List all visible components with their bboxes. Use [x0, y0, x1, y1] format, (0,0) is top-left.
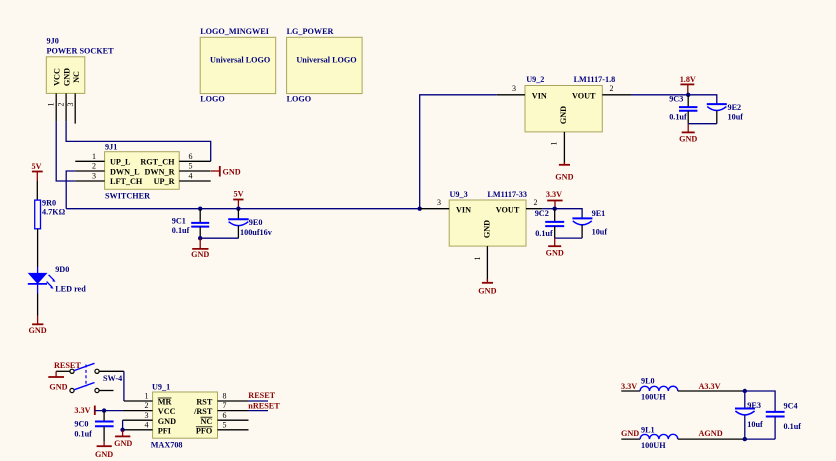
resistor 9R0 value 4.7KΩ: [42, 208, 66, 217]
svg-text:9C1: 9C1: [172, 217, 186, 226]
svg-text:5: 5: [189, 162, 193, 171]
svg-text:5V: 5V: [32, 162, 42, 171]
supervisor U9_1 pin 7 line: [218, 410, 249, 412]
ground symbol below U9_2: [555, 162, 573, 181]
logo LG_POWER label: [287, 27, 334, 36]
capacitor 9E3 value 10uf: [747, 420, 763, 429]
supervisor U9_1 pin 7 number: [223, 401, 227, 410]
logo LOGO_MINGWEI label: [200, 27, 269, 36]
svg-text:9E3: 9E3: [747, 401, 761, 410]
capacitor 9C2 designator: [535, 209, 549, 218]
switch SW-4 contacts and levers: [70, 363, 99, 392]
wire socket pin2 down, right, to RGT_CH pin 6: [66, 121, 211, 161]
svg-text:3.3V: 3.3V: [546, 190, 562, 199]
svg-text:LG_POWER: LG_POWER: [287, 27, 334, 36]
svg-text:nRESET: nRESET: [248, 402, 280, 411]
supervisor U9_1 pin name NC (overline): [200, 417, 212, 426]
connector 9J0 pin 3 number: [66, 103, 75, 107]
wire U9_1 GND/PFI join: [122, 420, 124, 432]
supervisor U9_1 pin 6 number: [223, 411, 227, 420]
regulator U9_2 pin 2 line: [602, 94, 631, 96]
connector 9J0 pin 2 number: [57, 103, 66, 107]
ground symbol below 9C0: [95, 442, 113, 459]
svg-text:3.3V: 3.3V: [621, 382, 637, 391]
svg-text:LOGO: LOGO: [287, 95, 312, 104]
svg-text:GND: GND: [483, 220, 492, 238]
svg-text:RESET: RESET: [54, 361, 81, 370]
svg-text:RESET: RESET: [248, 391, 275, 400]
svg-text:NC: NC: [72, 71, 81, 83]
svg-text:GND: GND: [49, 382, 67, 391]
svg-text:3.3V: 3.3V: [74, 406, 90, 415]
svg-text:100UH: 100UH: [641, 441, 666, 450]
capacitor 9E2 value 10uf: [728, 113, 744, 122]
capacitor 9E2 electrolytic: [707, 104, 727, 124]
svg-text:U9_3: U9_3: [450, 190, 468, 199]
svg-text:3: 3: [92, 172, 96, 181]
power 5V label (left): [32, 162, 42, 171]
regulator U9_3 pin 2 number: [534, 198, 538, 207]
wire GND to 9L1: [621, 438, 640, 440]
svg-text:MAX708: MAX708: [151, 440, 183, 449]
ground symbol at 9J1 pin 5: [211, 166, 241, 177]
svg-text:NC: NC: [200, 417, 212, 426]
svg-text:GND: GND: [679, 134, 697, 143]
regulator U9_2 pin 1 GND line: [563, 132, 565, 164]
svg-text:9C0: 9C0: [74, 420, 88, 429]
regulator U9_2 body: [525, 86, 602, 132]
svg-text:2: 2: [92, 162, 96, 171]
power 3.3V label (U9_1): [74, 406, 90, 415]
supervisor U9_1 designator: [152, 383, 170, 392]
svg-text:9L1: 9L1: [641, 425, 655, 434]
supervisor U9_1 pin 6 line: [218, 419, 249, 421]
svg-text:PFO: PFO: [196, 426, 212, 435]
inductor 9L1 value 100UH: [641, 441, 666, 450]
capacitor 9C2: [545, 209, 564, 238]
ground symbol below 9C1: [191, 238, 209, 259]
svg-text:/RST: /RST: [193, 407, 213, 416]
net label GND (filter input): [621, 429, 639, 438]
regulator U9_3 comment LM1117-33: [487, 190, 527, 199]
switch 9J1 pin name DWN_L: [110, 167, 140, 176]
supervisor U9_1 pin 3 line: [123, 419, 153, 421]
connector 9J0 pin 2 line: [65, 93, 67, 121]
svg-text:LED red: LED red: [55, 285, 86, 294]
svg-text:DWN_R: DWN_R: [144, 167, 174, 176]
inductor 9L0 designator: [641, 377, 655, 386]
svg-text:SWITCHER: SWITCHER: [105, 191, 150, 200]
switch 9J1 pin 1 line: [75, 160, 104, 162]
switch 9J1 comment SWITCHER: [105, 191, 150, 200]
ground symbol below 9C3: [679, 124, 697, 144]
svg-text:PFI: PFI: [158, 426, 171, 435]
wire 3.3V node to 9E1 top: [555, 209, 582, 219]
svg-text:GND: GND: [28, 326, 46, 335]
net label AGND: [699, 429, 723, 438]
supervisor U9_1 pin name PFO (overline): [196, 426, 212, 435]
ground symbol below LED: [28, 316, 46, 335]
wire RESET net stub: [248, 400, 268, 402]
svg-text:1: 1: [92, 152, 96, 161]
regulator U9_3 pin name VOUT: [496, 205, 520, 214]
logo LOGO_MINGWEI body: [200, 37, 276, 93]
svg-text:GND: GND: [191, 250, 209, 259]
regulator U9_3 designator: [450, 190, 468, 199]
switch 9J1 pin name UP_R: [154, 177, 175, 186]
connector 9J0 pin 1 number: [47, 103, 56, 107]
svg-text:10uf: 10uf: [592, 228, 608, 237]
ground symbol below 9C2: [546, 238, 564, 258]
capacitor 9E3 electrolytic: [735, 391, 755, 439]
svg-text:9C4: 9C4: [784, 401, 798, 410]
svg-text:LOGO_MINGWEI: LOGO_MINGWEI: [200, 27, 269, 36]
svg-text:9E1: 9E1: [592, 209, 606, 218]
supervisor U9_1 pin name /RST: [193, 407, 213, 416]
regulator U9_3 pin 3 line: [420, 208, 450, 210]
svg-text:9J1: 9J1: [105, 143, 117, 152]
switch 9J1 pin 1 number: [92, 152, 96, 161]
svg-text:1: 1: [550, 142, 559, 146]
wire 5V to resistor: [36, 181, 38, 200]
supervisor U9_1 pin 2 line: [123, 410, 153, 412]
svg-text:8: 8: [223, 392, 227, 401]
junction at 1.8V node: [686, 93, 690, 97]
capacitor 9C4 value 0.1uf: [784, 422, 802, 431]
svg-text:100uf16v: 100uf16v: [240, 228, 273, 237]
svg-text:GND: GND: [158, 417, 176, 426]
capacitor 9E2 designator: [728, 103, 742, 112]
ground symbol below U9_1 pins: [114, 430, 132, 448]
inductor 9L1: [640, 434, 678, 439]
svg-text:9C2: 9C2: [535, 209, 549, 218]
supervisor U9_1 pin 2 number: [145, 401, 149, 410]
net label 3.3V (filter input): [621, 382, 637, 391]
svg-text:4.7KΩ: 4.7KΩ: [42, 208, 66, 217]
junction at PFI pin: [120, 428, 124, 432]
capacitor 9C2 value 0.1uf: [535, 229, 553, 238]
capacitor 9C3 designator: [669, 95, 683, 104]
svg-text:0.1uf: 0.1uf: [669, 113, 687, 122]
connector 9J0 pin name VCC: [53, 68, 62, 86]
switch 9J1 pin 3 number: [92, 172, 96, 181]
switch 9J1 pin 3 line: [75, 180, 104, 182]
svg-text:DWN_L: DWN_L: [110, 167, 140, 176]
capacitor 9E1 value 10uf: [592, 228, 608, 237]
supervisor U9_1 comment MAX708: [151, 440, 183, 449]
capacitor 9E0 designator: [249, 218, 263, 227]
svg-text:VOUT: VOUT: [572, 91, 596, 100]
capacitor 9C0 designator: [74, 420, 88, 429]
svg-text:UP_R: UP_R: [154, 177, 175, 186]
inductor 9L0 value 100UH: [641, 393, 666, 402]
svg-text:9E0: 9E0: [249, 218, 263, 227]
svg-text:9D0: 9D0: [55, 265, 69, 274]
svg-text:6: 6: [189, 152, 193, 161]
regulator U9_2 pin name VOUT: [572, 91, 596, 100]
svg-text:9L0: 9L0: [641, 377, 655, 386]
svg-text:RGT_CH: RGT_CH: [140, 158, 175, 167]
wire LED to ground: [37, 294, 39, 316]
LED 9D0 comment LED red: [55, 285, 86, 294]
svg-text:GND: GND: [559, 106, 568, 124]
net label RESET (U9_1 pin 8): [248, 391, 275, 400]
net label A3.3V: [699, 382, 721, 391]
switch 9J1 pin 4 number: [189, 172, 193, 181]
supervisor U9_1 pin name VCC: [158, 407, 176, 416]
capacitor 9C3 value 0.1uf: [669, 113, 687, 122]
svg-text:LM1117-1.8: LM1117-1.8: [574, 75, 616, 84]
switch 9J1 pin 4 line: [179, 180, 211, 182]
capacitor 9C0 value 0.1uf: [74, 429, 92, 438]
supervisor U9_1 pin name RST: [196, 398, 212, 407]
svg-text:1: 1: [47, 103, 56, 107]
switch 9J1 pin 5 line: [179, 170, 211, 172]
svg-text:0.1uf: 0.1uf: [172, 226, 190, 235]
connector 9J0 designator label: [47, 37, 59, 46]
svg-text:UP_L: UP_L: [110, 158, 131, 167]
resistor 9R0 body: [35, 200, 41, 229]
connector 9J0 body: [46, 57, 85, 94]
capacitor 9C1 designator: [172, 217, 186, 226]
junction at AGND and 9E3 bottom: [743, 437, 747, 441]
switch 9J1 pin name UP_L: [110, 158, 131, 167]
capacitor 9C4 designator: [784, 401, 798, 410]
supervisor U9_1 pin 5 line: [218, 429, 249, 431]
switch 9J1 pin 5 number: [189, 162, 193, 171]
supervisor U9_1 pin name MR (overline): [158, 398, 172, 407]
supervisor U9_1 pin 8 line: [218, 400, 249, 402]
svg-text:1: 1: [473, 257, 482, 261]
capacitor 9C3: [679, 95, 697, 124]
logo LOGO_MINGWEI text Universal LOGO: [210, 56, 270, 65]
svg-text:VCC: VCC: [158, 407, 176, 416]
regulator U9_3 pin 2 line: [526, 208, 542, 210]
regulator U9_3 pin 1 GND line: [486, 246, 488, 281]
ground symbol at switch: [48, 371, 67, 391]
svg-text:0.1uf: 0.1uf: [784, 422, 802, 431]
capacitor 9C1: [191, 209, 209, 239]
wire switch left contact to ground: [56, 370, 70, 372]
svg-text:3: 3: [145, 411, 149, 420]
junction at rail and U9_3 branch: [418, 207, 422, 211]
svg-text:0.1uf: 0.1uf: [74, 429, 92, 438]
svg-text:7: 7: [223, 401, 227, 410]
svg-text:1.8V: 1.8V: [680, 75, 696, 84]
wire 9C3 bottom to 9E2 bottom: [688, 123, 717, 125]
svg-text:MR: MR: [158, 398, 172, 407]
svg-text:VIN: VIN: [456, 205, 471, 214]
switch SW-4 designator: [103, 374, 122, 383]
svg-text:2: 2: [57, 103, 66, 107]
svg-text:GND: GND: [555, 172, 573, 181]
LED 9D0 symbol: [28, 267, 56, 294]
junction at rail and 9C1: [198, 207, 202, 211]
svg-text:10uf: 10uf: [747, 420, 763, 429]
junction at rail and 9E0: [236, 207, 240, 211]
wire 9C2 bottom to 9E1 bottom: [555, 237, 582, 239]
supervisor U9_1 pin 4 number: [145, 420, 149, 429]
power 3.3V label (U9_3 out): [546, 190, 562, 199]
regulator U9_3 body: [449, 200, 526, 246]
capacitor 9E1 designator: [592, 209, 606, 218]
regulator U9_2 pin 3 line: [497, 94, 525, 96]
svg-text:SW-4: SW-4: [103, 374, 122, 383]
junction at 9C1 bottom: [198, 236, 202, 240]
net label RESET (switch): [54, 361, 81, 370]
switch 9J1 designator label: [105, 143, 117, 152]
svg-text:Universal LOGO: Universal LOGO: [296, 56, 356, 65]
svg-text:GND: GND: [621, 429, 639, 438]
svg-text:9J0: 9J0: [47, 37, 59, 46]
inductor 9L0: [640, 386, 678, 391]
capacitor 9C0: [95, 411, 114, 442]
wire DWN_L to 5V rail: [66, 171, 75, 209]
svg-text:2: 2: [610, 84, 614, 93]
svg-text:4: 4: [145, 420, 149, 429]
svg-text:RST: RST: [196, 398, 212, 407]
supervisor U9_1 pin 5 number: [223, 420, 227, 429]
switch 9J1 pin name RGT_CH: [140, 158, 175, 167]
svg-text:GND: GND: [114, 439, 132, 448]
svg-text:GND: GND: [546, 249, 564, 258]
capacitor 9E3 designator: [747, 401, 761, 410]
wire stub at lower right contact: [99, 390, 113, 392]
wire 3.3V to 9L0: [621, 390, 640, 392]
wire VCC: socket pin1 down to LFT_CH: [56, 121, 75, 181]
svg-text:LM1117-33: LM1117-33: [487, 190, 527, 199]
regulator U9_2 pin 1 number: [550, 142, 559, 146]
logo LG_POWER footer LOGO: [287, 95, 312, 104]
regulator U9_2 designator: [526, 75, 544, 84]
supervisor U9_1 pin 4 line: [123, 429, 153, 431]
svg-text:5: 5: [223, 420, 227, 429]
svg-text:U9_2: U9_2: [526, 75, 544, 84]
svg-text:2: 2: [534, 198, 538, 207]
svg-text:100UH: 100UH: [641, 393, 666, 402]
switch 9J1 pin 6 number: [189, 152, 193, 161]
regulator U9_2 pin 2 number: [610, 84, 614, 93]
connector 9J0 pin name GND: [63, 68, 72, 86]
junction at 9C0 top: [102, 408, 106, 412]
connector 9J0 comment POWER SOCKET: [47, 47, 115, 56]
svg-text:9C3: 9C3: [669, 95, 683, 104]
junction at A3.3V and 9E3: [743, 389, 747, 393]
power 3.3V symbol bar: [547, 201, 562, 209]
svg-text:3: 3: [66, 103, 75, 107]
svg-text:3: 3: [512, 84, 516, 93]
logo LG_POWER text Universal LOGO: [296, 56, 356, 65]
capacitor 9E0 value 100uf16v: [240, 228, 273, 237]
svg-text:GND: GND: [478, 286, 496, 295]
regulator U9_3 pin 1 number: [473, 257, 482, 261]
wire rail up to U9_2 VIN: [420, 95, 497, 209]
supervisor U9_1 pin name PFI: [158, 426, 171, 435]
switch 9J1 pin name DWN_R: [144, 167, 174, 176]
switch 9J1 pin 2 number: [92, 162, 96, 171]
wire AGND node to 9C4 bottom: [745, 438, 775, 440]
wire 9L0 to A3.3V node: [678, 390, 745, 392]
logo LOGO_MINGWEI footer LOGO: [200, 95, 225, 104]
svg-text:6: 6: [223, 411, 227, 420]
wire U9_3 VOUT to 3.3V node: [542, 208, 555, 210]
wire A3.3V node to 9C4 top: [745, 391, 775, 412]
power 3.3V symbol bar (U9_1): [94, 406, 96, 416]
inductor 9L1 designator: [641, 425, 655, 434]
power 1.8V symbol bar: [680, 84, 694, 94]
wire nRESET net stub: [248, 410, 268, 412]
junction at 3.3V node: [553, 207, 557, 211]
svg-text:A3.3V: A3.3V: [699, 382, 721, 391]
wire main 5V rail horizontal: [66, 208, 420, 210]
regulator U9_2 pin 3 number: [512, 84, 516, 93]
resistor 9R0 designator: [42, 199, 56, 208]
connector 9J0 pin 1 line: [55, 93, 57, 121]
switch 9J1 pin name LFT_CH: [110, 177, 143, 186]
wire 9L1 to AGND node: [678, 438, 745, 440]
wire U9_2 VOUT to 1.8V node: [631, 94, 688, 96]
logo LG_POWER body: [287, 37, 363, 93]
power 5V label (mid): [234, 190, 244, 199]
supervisor U9_1 pin 1 number: [145, 392, 149, 401]
power 1.8V label: [680, 75, 696, 84]
regulator U9_3 pin name GND (rotated): [483, 220, 492, 238]
wire resistor to LED: [37, 229, 39, 267]
supervisor U9_1 pin 1 line: [124, 400, 153, 402]
svg-text:Universal LOGO: Universal LOGO: [210, 56, 270, 65]
regulator U9_3 pin 3 number: [437, 198, 441, 207]
svg-text:1: 1: [145, 392, 149, 401]
svg-text:VCC: VCC: [53, 68, 62, 86]
svg-text:9E2: 9E2: [728, 103, 742, 112]
svg-text:LOGO: LOGO: [200, 95, 225, 104]
svg-text:GND: GND: [223, 168, 241, 177]
svg-text:2: 2: [145, 401, 149, 410]
regulator U9_2 pin name VIN: [532, 91, 547, 100]
power 5V symbol bar (mid): [233, 200, 243, 209]
svg-text:GND: GND: [95, 450, 113, 459]
capacitor 9E1 electrolytic: [572, 218, 592, 238]
svg-text:POWER SOCKET: POWER SOCKET: [47, 47, 115, 56]
svg-text:3: 3: [437, 198, 441, 207]
regulator U9_2 pin name GND (rotated): [559, 106, 568, 124]
svg-text:4: 4: [189, 172, 193, 181]
capacitor 9C4: [766, 412, 785, 439]
net label nRESET (U9_1 pin 7): [248, 402, 280, 411]
svg-text:U9_1: U9_1: [152, 383, 170, 392]
svg-text:VOUT: VOUT: [496, 205, 520, 214]
wire 3.3V to VCC pin: [95, 410, 123, 412]
supervisor U9_1 pin 3 number: [145, 411, 149, 420]
power 5V symbol bar (left): [32, 172, 43, 182]
ground symbol below U9_3: [478, 279, 496, 295]
svg-text:9R0: 9R0: [42, 199, 56, 208]
supervisor U9_1 body: [153, 392, 218, 438]
wire 1.8V node to 9E2 top: [688, 95, 717, 104]
connector 9J0 pin 3 line (no connect stub): [74, 93, 76, 123]
svg-text:0.1uf: 0.1uf: [535, 229, 553, 238]
capacitor 9E0 electrolytic: [228, 209, 249, 239]
capacitor 9C1 value 0.1uf: [172, 226, 190, 235]
svg-text:5V: 5V: [234, 190, 244, 199]
svg-text:GND: GND: [63, 68, 72, 86]
connector 9J0 pin name NC: [72, 71, 81, 83]
wire 9C1 bottom to 9E0 bottom: [200, 237, 238, 239]
supervisor U9_1 pin name GND: [158, 417, 176, 426]
svg-text:LFT_CH: LFT_CH: [110, 177, 143, 186]
svg-text:AGND: AGND: [699, 429, 723, 438]
switch 9J1 pin 6 line: [179, 160, 211, 162]
